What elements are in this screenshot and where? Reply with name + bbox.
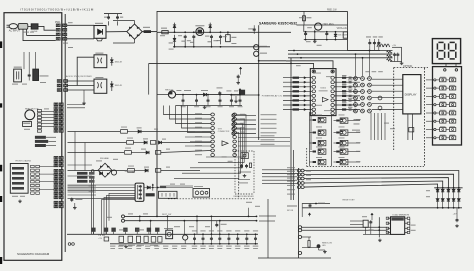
- svg-text:OPTION: OPTION: [403, 65, 412, 68]
- driver transistors extra: [378, 96, 382, 100]
- timer pin ovals: [298, 226, 301, 229]
- IC602 body: [391, 217, 405, 235]
- wire: [26, 29, 28, 35]
- capacitor C601: [237, 75, 239, 77]
- dashed border servo right: [238, 158, 240, 199]
- vertical bus wire x259: [258, 25, 260, 140]
- vertical bus wire x291: [290, 58, 292, 200]
- resistor R608 label: [184, 90, 191, 91]
- IC602 right vertical wire: [409, 218, 411, 232]
- remocon LED cluster: [302, 236, 311, 238]
- servo signal wires from bus: [68, 185, 97, 187]
- dew sensor S901: [14, 69, 22, 82]
- connector CN604 pins: [54, 201, 58, 204]
- AV jack connector right column: [233, 113, 237, 116]
- resistor R905 zigzag: [387, 51, 393, 53]
- inductor L901 blob: [144, 30, 151, 33]
- reset key parts: [303, 203, 330, 205]
- bottom rail A: [125, 215, 257, 217]
- capacitor C916: [253, 28, 255, 30]
- capacitor C910: [369, 39, 371, 41]
- bridge return verticals: [91, 178, 93, 235]
- wire bridge output to SMPS: [142, 31, 157, 33]
- wire +B feed: [348, 50, 381, 52]
- diode D605: [111, 81, 113, 91]
- resistor R620 box: [363, 220, 368, 227]
- svg-text:FRONT LOADING: FRONT LOADING: [16, 160, 32, 163]
- IC602 left pins: [388, 217, 391, 219]
- wire +5V node: [392, 46, 402, 48]
- IC601 system control micom body: [310, 69, 336, 116]
- svg-text:AC INPUT: AC INPUT: [9, 29, 21, 32]
- svg-text:VR B+ADJ: VR B+ADJ: [337, 27, 348, 30]
- vertical bus wire x293.5: [293, 150, 295, 200]
- svg-text:AC4.5V 12V(S) SW POWER: AC4.5V 12V(S) SW POWER: [66, 75, 92, 78]
- wire power relay ctl: [230, 94, 259, 96]
- key scan wires left: [262, 169, 297, 171]
- diode ladder bus: [434, 187, 462, 189]
- bottom caps row: [194, 234, 196, 236]
- 7-segment digit 2: [450, 41, 455, 43]
- wire mode to servo: [144, 187, 193, 189]
- cell matrix labels: [316, 114, 322, 117]
- photo coupler PC602 box: [94, 79, 107, 93]
- relay RL901 with diode: [94, 26, 106, 39]
- servo return vertical: [267, 199, 269, 258]
- drum label box: [35, 136, 46, 139]
- resistor R904 vertical: [303, 11, 305, 25]
- mode switch feed wires: [68, 184, 136, 186]
- capacitor C902: [117, 14, 119, 16]
- zener ZD901: [174, 35, 176, 47]
- capacitor C905: [211, 35, 213, 37]
- capacitor C616: [219, 91, 221, 93]
- fuse F901: [31, 24, 38, 29]
- +5V supply arrow: [309, 213, 311, 216]
- dashed border around driver matrix: [306, 148, 308, 167]
- key scan rail 3: [304, 178, 448, 188]
- front loading pins: [31, 165, 35, 167]
- wire micom top rail B: [259, 61, 333, 69]
- capacitor C904: [193, 35, 195, 37]
- IC602 right pins: [405, 217, 408, 219]
- loading motor box: [23, 122, 32, 127]
- capacitor C914: [397, 53, 399, 55]
- coil L902: [377, 44, 383, 47]
- svg-text:DISPLAY: DISPLAY: [405, 93, 417, 97]
- wire: [67, 38, 94, 40]
- svg-text:1N4148: 1N4148: [115, 85, 123, 87]
- key scan rail 4: [304, 181, 443, 188]
- dashed border servo bottom: [168, 198, 254, 200]
- keypad common circles: [444, 69, 446, 71]
- wire: [77, 57, 94, 85]
- junction dots on rails: [174, 31, 176, 33]
- wire reg lower rail: [304, 31, 348, 33]
- cell matrix feed wires: [309, 112, 311, 166]
- motor pin header: [37, 109, 41, 111]
- wire bridge bottom: [134, 39, 136, 43]
- +5V arrow supply: [240, 67, 242, 70]
- transistor Q903: [254, 51, 259, 56]
- svg-text:POWER RELAY CTL: POWER RELAY CTL: [262, 94, 283, 97]
- capacitor C908: [326, 32, 328, 34]
- wire mode rows to jack: [160, 185, 193, 187]
- svg-text:R901 1W: R901 1W: [327, 10, 337, 12]
- potentiometer VR901 B+ADJ: [343, 32, 347, 38]
- servo row 3 parts: [125, 151, 132, 155]
- micom pin pads left: [312, 70, 315, 73]
- wire vertical right corner: [347, 11, 349, 50]
- junction stub: [152, 184, 154, 191]
- display module bottom wires: [407, 114, 409, 140]
- DISPLAY module box: [403, 75, 421, 114]
- AC input plug J1: [9, 24, 17, 29]
- servo row 1 parts: [121, 130, 128, 134]
- transistor Q607: [111, 170, 116, 175]
- 7-segment digit 1: [438, 41, 443, 43]
- wire: [23, 29, 56, 40]
- transistor Q604 5V reg: [168, 91, 175, 98]
- display bottom labels: [354, 119, 361, 120]
- diode D604: [111, 57, 113, 66]
- left parts labels: [119, 229, 127, 230]
- bottom rail B: [125, 220, 257, 222]
- ground: [83, 102, 85, 104]
- wire B+ secondary rail: [270, 31, 291, 33]
- capacitor C913: [394, 53, 396, 55]
- capacitor C627: [370, 220, 372, 222]
- transformer T602 box: [166, 230, 173, 239]
- key scan pin header: [297, 169, 300, 172]
- capacitor C912: [378, 39, 380, 41]
- capacitor C618: [71, 198, 73, 200]
- key switch rows: [434, 79, 436, 81]
- mode switch S601 box: [135, 183, 144, 201]
- capacitor C901 C902 rail: [104, 13, 122, 15]
- key scan rail 2: [304, 174, 453, 188]
- resistor R906 zigzag: [387, 55, 393, 57]
- misc part value labels: [160, 35, 165, 36]
- wire center tap: [314, 30, 316, 40]
- capacitor C620: [456, 218, 458, 220]
- svg-text:RESET KEY: RESET KEY: [343, 200, 356, 202]
- reg bottom rail: [176, 105, 242, 107]
- driver grid supply drop wires: [355, 54, 357, 76]
- jack feed corner wires: [164, 106, 211, 115]
- power relay control box: [239, 90, 245, 95]
- svg-text:/70190/70001/70002/B+/U1B/B+/K: /70190/70001/70002/B+/U1B/B+/K11M: [20, 8, 94, 12]
- connector P901 pins: [56, 24, 60, 27]
- head motor M901: [25, 110, 35, 120]
- capacitor C903: [184, 35, 186, 37]
- mode bracket wires: [102, 200, 136, 235]
- digit driver transistors: [354, 77, 358, 81]
- wire display to keypad: [445, 64, 447, 67]
- svg-text:REG 5V: REG 5V: [165, 89, 174, 91]
- micom pin pads right: [331, 70, 334, 73]
- extra value text under rail D: [110, 246, 115, 247]
- connector CN602 pins: [54, 157, 58, 160]
- wire: [38, 26, 56, 30]
- function key board box: [433, 67, 462, 145]
- svg-text:+5V: +5V: [453, 213, 457, 215]
- svg-text:SAMSUNG K3S5C4S32: SAMSUNG K3S5C4S32: [259, 21, 297, 25]
- wire stub left: [350, 220, 363, 222]
- capacitor C906: [220, 35, 222, 37]
- capacitor C907: [305, 32, 307, 34]
- remocon sensor module: [241, 153, 248, 159]
- ground: [74, 206, 76, 208]
- transistor Q901 regulator: [315, 23, 322, 30]
- audio rail wires: [302, 226, 388, 228]
- cap motor label box: [35, 144, 46, 147]
- vertical junction wire: [378, 217, 380, 237]
- wire: [17, 25, 20, 27]
- relay coil frame: [96, 38, 102, 41]
- upper label marks row: [91, 228, 95, 232]
- wire reg bottom rail: [304, 39, 348, 41]
- front loading connector box: [10, 164, 28, 194]
- remocon parts: [241, 164, 243, 166]
- label blob: [160, 186, 166, 188]
- coil L903: [384, 44, 390, 47]
- left edge scan marks: [0, 41, 2, 48]
- key return wire: [303, 207, 462, 209]
- svg-text:Q901 REG: Q901 REG: [323, 24, 334, 26]
- SMPS bottom rail wire: [173, 46, 270, 48]
- ground: [125, 245, 127, 247]
- main switch S902: [33, 69, 39, 80]
- rail B end pin: [256, 220, 258, 222]
- keypad left stub wires: [426, 79, 434, 81]
- main rectified rail wire: [157, 31, 270, 33]
- zener ZD902 5V6: [335, 32, 337, 40]
- AV jack right wires: [206, 115, 246, 158]
- bridge rectifier D901: [127, 24, 142, 39]
- lamp pin circles: [68, 243, 71, 246]
- mode sw label: [146, 193, 155, 196]
- transistor Q902: [254, 45, 259, 50]
- wires from top: [28, 52, 30, 73]
- bottom rail C: [67, 233, 258, 235]
- B+ top rail wire: [157, 11, 348, 31]
- rail A end pin: [256, 216, 258, 218]
- resistor R903 box: [226, 35, 231, 42]
- jack lower feed wires: [185, 136, 211, 138]
- jack row labels: [195, 113, 202, 114]
- key scan labels: [287, 167, 295, 168]
- transformer T901: [196, 28, 204, 36]
- connector pins power secondary: [57, 80, 61, 83]
- main PWB outline box: [4, 13, 62, 261]
- wire key in: [287, 205, 297, 207]
- svg-text:KEY IN: KEY IN: [287, 210, 294, 212]
- switch S903: [104, 237, 109, 241]
- relay drive ground: [235, 96, 237, 100]
- wire IC bottom loop: [363, 233, 391, 235]
- wire micom top rail A: [149, 63, 314, 68]
- key scan rail 5: [304, 184, 437, 188]
- display feed wires: [372, 78, 403, 80]
- function select wires: [238, 137, 290, 139]
- connector CN601 pins: [54, 103, 58, 106]
- wires labels to bus: [46, 136, 56, 138]
- ground: [401, 62, 403, 64]
- wire bridge top: [134, 21, 136, 25]
- diode D612: [147, 186, 150, 189]
- servo sync box: [159, 191, 178, 198]
- wire drop to reg row: [148, 63, 150, 94]
- svg-text:1N4148: 1N4148: [115, 61, 123, 63]
- isolation diodes row1: [437, 188, 439, 189]
- line filter LF901: [18, 24, 28, 30]
- bridge junction: [91, 170, 94, 173]
- bottom rail D: [110, 243, 258, 245]
- main PWB bus wire: [64, 14, 66, 252]
- wire relay to bridge: [106, 31, 127, 33]
- reg row hanging caps: [182, 95, 184, 99]
- remocon receiver dashed box: [235, 150, 254, 152]
- ground: [456, 224, 458, 226]
- small parts on rail C: [119, 236, 124, 242]
- row feed verticals: [74, 132, 76, 171]
- diode D611: [100, 172, 103, 175]
- wire AC to rectifier: [67, 24, 94, 26]
- photo coupler PC601 box: [94, 55, 107, 68]
- capacitor C901: [108, 14, 110, 16]
- servo row 4 parts: [128, 169, 135, 173]
- rail interconnect verticals: [139, 216, 141, 220]
- ground: [204, 106, 206, 108]
- driver column wires down: [370, 113, 372, 140]
- svg-text:HEAD MOTOR: HEAD MOTOR: [25, 107, 39, 110]
- timer board verticals: [298, 168, 300, 258]
- head switch bridge D606: [98, 163, 112, 177]
- wire reg row: [157, 94, 168, 96]
- wires bus to main area: [67, 104, 85, 106]
- resistor R902: [162, 31, 168, 34]
- svg-text:5V6 1/2W: 5V6 1/2W: [338, 34, 349, 36]
- micom right output wires with parts: [334, 77, 360, 79]
- svg-text:CONNECTOR: CONNECTOR: [218, 131, 230, 133]
- ground: [324, 250, 326, 252]
- cassette lamp wires: [122, 215, 125, 218]
- micom pin1 marks: [313, 71, 314, 72]
- junction dots rails: [139, 216, 141, 218]
- micom internal comparator triangle: [322, 97, 328, 102]
- 7-segment display DS901 box: [432, 39, 460, 64]
- ground: [237, 81, 239, 83]
- drum pulse label boxes: [77, 172, 88, 175]
- micom internal text: [314, 72, 321, 75]
- oscillator X601 cluster: [193, 189, 210, 198]
- connector CN603 pins: [54, 170, 58, 173]
- lamp driver cell matrix: [318, 117, 326, 122]
- micom left input wires with resistors: [283, 77, 312, 79]
- capacitor C622 4.7u: [216, 221, 218, 223]
- +5V arrow: [371, 213, 373, 216]
- main vertical wire x157: [156, 32, 158, 216]
- ground: [379, 239, 381, 241]
- isolation diodes row2: [436, 199, 439, 202]
- ground: [314, 40, 316, 42]
- capstan label box: [35, 140, 48, 143]
- svg-text:SCHEMATIC DIAGRAM: SCHEMATIC DIAGRAM: [17, 252, 50, 256]
- transistor Q610: [183, 235, 188, 240]
- key input pins: [232, 114, 235, 117]
- buffer amp triangle: [222, 141, 228, 146]
- capacitor C911: [373, 39, 375, 41]
- supply rail wires to display: [288, 50, 393, 52]
- svg-text:R617_1W: R617_1W: [162, 214, 171, 216]
- parts cluster: [125, 170, 135, 171]
- svg-text:FM HEAD: FM HEAD: [100, 157, 110, 160]
- wires front loading to bus: [39, 166, 54, 168]
- display board dashed outline: [394, 67, 428, 69]
- capacitor C915: [28, 73, 30, 75]
- AV jack connector left column: [211, 113, 215, 116]
- wire reg rail: [297, 24, 348, 26]
- servo row wires from bus: [68, 131, 121, 133]
- timer bottom rail: [258, 257, 331, 259]
- key scan rail 1: [304, 171, 459, 189]
- diode D607: [203, 93, 206, 96]
- deck ground: [19, 200, 21, 202]
- +5V output arrow: [239, 89, 241, 92]
- diode D902: [174, 23, 176, 33]
- svg-text:+5V: +5V: [392, 45, 396, 47]
- wires motor to connector: [41, 111, 54, 113]
- +B output labels: [366, 36, 371, 37]
- resistor R907 zigzag: [387, 59, 393, 61]
- servo row 2 parts: [127, 141, 134, 145]
- wire: [28, 25, 31, 27]
- svg-text:REMOCON RECEIVER: REMOCON RECEIVER: [234, 196, 255, 198]
- diode D903: [209, 23, 211, 33]
- svg-text:LED: LED: [322, 245, 326, 247]
- svg-text:IC601: IC601: [320, 88, 327, 90]
